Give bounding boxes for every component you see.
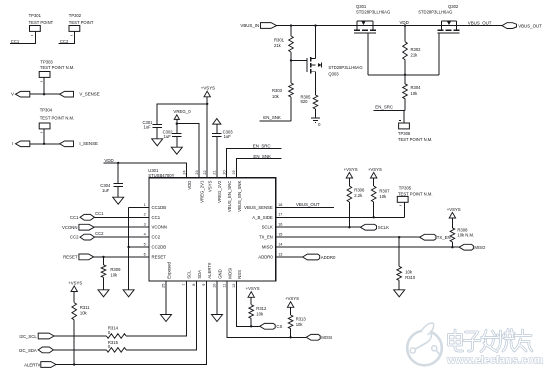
svg-text:U301: U301 xyxy=(148,168,159,173)
svg-text:VREG_0: VREG_0 xyxy=(173,109,191,114)
wire TP302 to CC2 xyxy=(59,31,75,43)
wire TP304 to I node xyxy=(43,129,45,144)
resistor R310 xyxy=(398,237,400,266)
wire SCL pin7 xyxy=(126,281,186,336)
svg-text:RESET: RESET xyxy=(152,254,167,259)
svg-text:Q302: Q302 xyxy=(448,4,459,9)
svg-text:MISO: MISO xyxy=(474,245,486,250)
resistor R308 xyxy=(451,218,453,228)
svg-text:NSS: NSS xyxy=(237,270,242,279)
junction R301 bottom xyxy=(290,59,292,61)
svg-text:I: I xyxy=(12,141,13,146)
svg-text:18: 18 xyxy=(278,203,282,207)
wire TP301 to CC1 xyxy=(10,31,36,43)
svg-text:CC2: CC2 xyxy=(70,235,79,240)
wire TX_EN pin15 xyxy=(276,236,420,238)
resistor R312 xyxy=(250,297,252,304)
watermark logo circle xyxy=(407,323,442,365)
ground CC1DB xyxy=(123,290,134,297)
junction R313 on MOSI xyxy=(289,336,291,338)
svg-text:SCLK: SCLK xyxy=(262,225,273,230)
resistor R305 xyxy=(313,95,318,109)
test point TP306 xyxy=(403,110,405,123)
svg-text:I2C_SDA: I2C_SDA xyxy=(19,348,37,353)
svg-text:TX_EN: TX_EN xyxy=(259,235,273,240)
wire SDA pin8 xyxy=(126,281,196,350)
svg-text:GND: GND xyxy=(217,269,222,279)
svg-text:20: 20 xyxy=(222,170,226,174)
svg-text:8: 8 xyxy=(192,284,196,286)
wire ALERT# pin9 xyxy=(56,281,207,365)
wire R314 to I2C_SCL xyxy=(54,335,106,337)
svg-text:MOSI: MOSI xyxy=(321,335,332,340)
ground under C304 xyxy=(113,197,124,204)
svg-text:2: 2 xyxy=(144,213,146,217)
svg-text:CC2DB: CC2DB xyxy=(152,245,167,250)
resistor R302 xyxy=(404,26,406,42)
resistor R313 xyxy=(290,307,292,315)
wire NSS pin12 xyxy=(237,281,260,326)
port MISO xyxy=(459,244,473,250)
svg-text:R306: R306 xyxy=(354,188,365,193)
wire Q303 gate feed xyxy=(291,60,307,62)
wire VCONN to pin3 xyxy=(94,226,149,228)
svg-text:820: 820 xyxy=(301,99,309,104)
wire EN_SNK stub xyxy=(259,120,291,122)
svg-text:VREG_2V1: VREG_2V1 xyxy=(200,180,205,203)
svg-text:+VSYS: +VSYS xyxy=(246,286,260,291)
svg-text:1uF: 1uF xyxy=(224,134,232,139)
junction C302 node xyxy=(176,123,178,125)
junction Q303 drain xyxy=(314,24,316,26)
port I_SENSE xyxy=(60,141,74,147)
svg-text:21k: 21k xyxy=(274,43,282,48)
svg-text:CC1: CC1 xyxy=(152,215,161,220)
resistor R306 xyxy=(348,178,350,186)
svg-text:VBUS_OUT: VBUS_OUT xyxy=(468,20,492,25)
svg-text:10k: 10k xyxy=(411,91,419,96)
junction R312 on NSS xyxy=(250,325,252,327)
wire EN_SRC to pin 20 xyxy=(227,148,282,177)
svg-text:TEST POINT N.M.: TEST POINT N.M. xyxy=(398,137,433,142)
svg-text:TEST POINT N.M.: TEST POINT N.M. xyxy=(398,191,433,196)
svg-text:CC2: CC2 xyxy=(60,39,69,44)
junction R308 on MISO xyxy=(451,246,453,248)
svg-text:TP302: TP302 xyxy=(69,13,82,18)
svg-text:TP301: TP301 xyxy=(29,13,42,18)
wire EN_SNK to pin 19 xyxy=(237,159,282,178)
wire Q301 gate xyxy=(367,33,369,75)
capacitor C304 xyxy=(117,163,119,184)
svg-text:VBUS_EN_SNK: VBUS_EN_SNK xyxy=(237,180,242,211)
svg-text:ALERT#: ALERT# xyxy=(24,362,41,367)
svg-text:VDD: VDD xyxy=(104,158,113,163)
junction I node xyxy=(43,143,45,145)
svg-text:Exposed: Exposed xyxy=(166,261,171,278)
svg-text:EN_SNK: EN_SNK xyxy=(263,115,281,120)
svg-text:CC2: CC2 xyxy=(95,231,104,236)
junction gate rail R302/R304 xyxy=(404,74,406,76)
wire ADDR0 pin13 xyxy=(276,256,303,258)
wire RESET to pin6 xyxy=(94,256,149,258)
svg-text:TP304: TP304 xyxy=(40,107,53,112)
svg-text:TP303: TP303 xyxy=(40,60,53,65)
wire C301 branch xyxy=(157,104,207,125)
junction R306 on SCLK xyxy=(348,226,350,228)
svg-text:TEST POINT: TEST POINT xyxy=(69,20,94,25)
svg-text:www.elecfans.com: www.elecfans.com xyxy=(446,355,543,367)
svg-text:R311: R311 xyxy=(80,305,90,310)
svg-text:SCLK: SCLK xyxy=(378,225,389,230)
svg-text:STD28P3LLH6AG: STD28P3LLH6AG xyxy=(418,10,452,15)
resistor R304 xyxy=(404,75,406,84)
svg-text:VBUS_EN_SRC: VBUS_EN_SRC xyxy=(227,181,232,213)
capacitor C302 xyxy=(176,124,178,134)
junction V node xyxy=(43,93,45,95)
svg-text:10k: 10k xyxy=(110,273,118,278)
svg-text:Q303: Q303 xyxy=(328,72,339,77)
svg-text:11: 11 xyxy=(223,284,227,288)
svg-text:CC1: CC1 xyxy=(70,215,79,220)
svg-text:17: 17 xyxy=(278,213,282,217)
wire EN_SRC stub xyxy=(373,109,405,111)
svg-text:10k: 10k xyxy=(272,94,280,99)
svg-text:VBUS_OUT: VBUS_OUT xyxy=(518,23,542,28)
svg-text:EN_SRC: EN_SRC xyxy=(375,105,393,110)
svg-text:TEST POINT N.M.: TEST POINT N.M. xyxy=(40,65,75,70)
svg-text:VREG_1V2: VREG_1V2 xyxy=(217,180,222,203)
resistor R301 xyxy=(290,26,292,36)
svg-text:VBUS_SENSE: VBUS_SENSE xyxy=(244,205,273,210)
svg-text:1uF: 1uF xyxy=(164,134,172,139)
svg-text:I_SENSE: I_SENSE xyxy=(79,141,98,146)
svg-text:Q301: Q301 xyxy=(356,4,367,9)
svg-text:12: 12 xyxy=(232,284,236,288)
svg-text:CC2: CC2 xyxy=(152,235,161,240)
svg-text:10k: 10k xyxy=(296,322,304,327)
svg-text:16: 16 xyxy=(278,223,282,227)
svg-text:23: 23 xyxy=(195,170,199,174)
svg-text:R310: R310 xyxy=(405,275,416,280)
wire CC1DB pin1 xyxy=(129,206,149,208)
wire CC1DB/CC2DB to ground xyxy=(128,207,130,289)
svg-text:R304: R304 xyxy=(411,85,422,90)
wire Exposed pad xyxy=(165,281,167,315)
svg-text:1uF: 1uF xyxy=(102,188,110,193)
port SCLK xyxy=(360,224,376,230)
svg-text:SDA: SDA xyxy=(197,270,202,279)
junction R309 xyxy=(102,256,104,258)
svg-text:SCL: SCL xyxy=(187,270,192,279)
svg-text:+VSYS: +VSYS xyxy=(285,296,299,301)
junction VDD node xyxy=(404,24,406,26)
svg-text:+VSYS: +VSYS xyxy=(344,167,358,172)
watermark chinese characters xyxy=(449,330,533,352)
svg-text:TP306: TP306 xyxy=(398,131,411,136)
svg-text:13: 13 xyxy=(278,252,282,256)
wire V to V_SENSE xyxy=(30,93,60,95)
svg-text:VBUS_IN: VBUS_IN xyxy=(240,23,259,28)
power arrow VREG_1V2 xyxy=(213,119,221,125)
svg-text:1: 1 xyxy=(144,203,146,207)
svg-text:14: 14 xyxy=(278,243,282,247)
wire TP303 to V node xyxy=(43,77,45,94)
svg-text:TP305: TP305 xyxy=(399,186,412,191)
port V_SENSE xyxy=(60,91,74,97)
wire VBUS_SENSE pin18 xyxy=(276,206,334,208)
junction C304 branch xyxy=(117,162,119,164)
wire MOSI pin11 xyxy=(227,281,306,337)
svg-text:+VSYS: +VSYS xyxy=(447,207,461,212)
port CS xyxy=(260,323,276,329)
svg-text:R312: R312 xyxy=(256,306,267,311)
svg-text:19: 19 xyxy=(232,170,236,174)
ground Exposed xyxy=(161,315,172,322)
junction R310 on TX_EN xyxy=(398,236,400,238)
resistor R309 xyxy=(103,257,105,265)
svg-text:ADDR0: ADDR0 xyxy=(321,255,336,260)
capacitor C301 xyxy=(152,124,162,126)
svg-text:10k: 10k xyxy=(80,310,88,315)
wire gate rail xyxy=(368,74,439,76)
test point TP305 xyxy=(404,202,406,217)
wire VREG_0 to pin 23 xyxy=(177,124,199,178)
wire C303 to pin 21 xyxy=(216,137,218,178)
svg-text:CC1: CC1 xyxy=(95,211,104,216)
wire R315 to I2C_SDA xyxy=(53,349,106,351)
svg-text:R308: R308 xyxy=(457,227,468,232)
svg-text:5: 5 xyxy=(144,242,146,246)
svg-text:15: 15 xyxy=(278,233,282,237)
svg-text:9: 9 xyxy=(202,284,206,286)
svg-text:10k: 10k xyxy=(256,312,264,317)
svg-text:VDD: VDD xyxy=(187,181,192,190)
svg-text:7: 7 xyxy=(182,284,186,286)
wire +VSYS to VSYS pin xyxy=(206,97,208,178)
svg-text:2.2k: 2.2k xyxy=(354,193,363,198)
wire VDD to pin 24 xyxy=(104,163,187,178)
junction CC2DB xyxy=(127,246,129,248)
svg-text:VDD: VDD xyxy=(400,20,409,25)
svg-text:6: 6 xyxy=(144,252,146,256)
junction R311 on ALERT# xyxy=(73,363,75,365)
svg-text:+VSYS: +VSYS xyxy=(201,85,215,90)
svg-text:21: 21 xyxy=(213,170,217,174)
wire VBUS rail xyxy=(277,25,502,27)
svg-text:R307: R307 xyxy=(379,189,390,194)
port ADDR0 xyxy=(303,254,320,260)
svg-text:ALERT#: ALERT# xyxy=(207,262,212,279)
svg-text:A_B_SIDE: A_B_SIDE xyxy=(252,215,273,220)
wire GND pin10 xyxy=(216,281,218,315)
svg-text:+VSYS: +VSYS xyxy=(68,280,82,285)
wire A_B_SIDE pin17 xyxy=(276,216,405,218)
resistor R311 xyxy=(73,292,75,303)
svg-text:24: 24 xyxy=(182,170,186,174)
port TX_EN xyxy=(420,234,436,240)
svg-text:VSYS: VSYS xyxy=(208,180,213,192)
svg-text:CC1DB: CC1DB xyxy=(152,205,167,210)
resistor R303 xyxy=(290,61,292,84)
svg-text:1uF: 1uF xyxy=(144,124,152,129)
svg-text:CC1: CC1 xyxy=(11,39,20,44)
wire CC2 to pin4 xyxy=(95,236,149,238)
wire CC1 to pin2 xyxy=(95,216,149,218)
port VBUS_OUT xyxy=(502,23,517,29)
svg-text:25: 25 xyxy=(162,284,166,288)
svg-text:10k: 10k xyxy=(405,269,413,274)
resistor R307 xyxy=(373,178,375,186)
svg-text:TEST POINT N.M.: TEST POINT N.M. xyxy=(40,116,75,121)
svg-text:ADDR0: ADDR0 xyxy=(258,255,273,260)
wire Q303 source xyxy=(315,72,317,95)
svg-text:VCONN: VCONN xyxy=(152,225,168,230)
svg-text:RESET: RESET xyxy=(63,254,78,259)
ground under R310 xyxy=(394,290,405,297)
ground under R309 xyxy=(98,290,109,297)
svg-text:4: 4 xyxy=(144,233,146,237)
svg-text:10k N.M.: 10k N.M. xyxy=(457,233,474,238)
svg-text:3: 3 xyxy=(144,223,146,227)
svg-text:MOSI: MOSI xyxy=(227,268,232,279)
svg-text:R301: R301 xyxy=(274,37,285,42)
junction R301 top xyxy=(290,24,292,26)
svg-text:MISO: MISO xyxy=(262,245,274,250)
svg-text:21k: 21k xyxy=(411,53,419,58)
svg-text:+VSYS: +VSYS xyxy=(368,167,382,172)
svg-text:22: 22 xyxy=(203,170,207,174)
svg-text:EN_SNK: EN_SNK xyxy=(253,154,271,159)
svg-text:I2C_SCL: I2C_SCL xyxy=(19,334,37,339)
svg-text:10: 10 xyxy=(213,284,217,288)
wire SCLK pin16 xyxy=(276,226,361,228)
junction R307 on A_B_SIDE xyxy=(373,216,375,218)
svg-text:STD28P3LLH6AG: STD28P3LLH6AG xyxy=(328,65,362,70)
capacitor C303 xyxy=(216,124,218,134)
svg-text:R313: R313 xyxy=(296,316,307,321)
ground under C301 xyxy=(152,139,163,146)
resistor R314 xyxy=(106,334,126,339)
svg-text:VBUS_OUT: VBUS_OUT xyxy=(296,202,320,207)
junction C301 branch xyxy=(206,103,208,105)
svg-text:V: V xyxy=(11,92,14,97)
svg-text:TEST POINT: TEST POINT xyxy=(29,20,54,25)
ground 0 under R305 xyxy=(311,117,320,119)
wire MISO pin14 xyxy=(276,246,459,248)
resistor R315 xyxy=(106,348,126,353)
wire Q303 drain xyxy=(315,26,317,59)
svg-text:VCONN: VCONN xyxy=(62,225,78,230)
ground under C302 xyxy=(171,147,182,154)
svg-text:R302: R302 xyxy=(411,47,422,52)
svg-text:STD28P3LLH6AG: STD28P3LLH6AG xyxy=(356,10,390,15)
wire Q302 gate xyxy=(438,33,440,75)
svg-text:R303: R303 xyxy=(272,88,283,93)
wire CC2DB pin5 xyxy=(129,246,149,248)
port MOSI xyxy=(306,334,320,340)
ground pin10 xyxy=(212,315,223,322)
svg-text:TX_EN: TX_EN xyxy=(437,235,451,240)
svg-text:10k: 10k xyxy=(379,194,387,199)
svg-text:V_SENSE: V_SENSE xyxy=(79,92,99,97)
wire I to I_SENSE xyxy=(30,143,60,145)
svg-text:R309: R309 xyxy=(110,267,121,272)
svg-text:CS: CS xyxy=(276,324,282,329)
svg-text:EN_SRC: EN_SRC xyxy=(253,143,271,148)
